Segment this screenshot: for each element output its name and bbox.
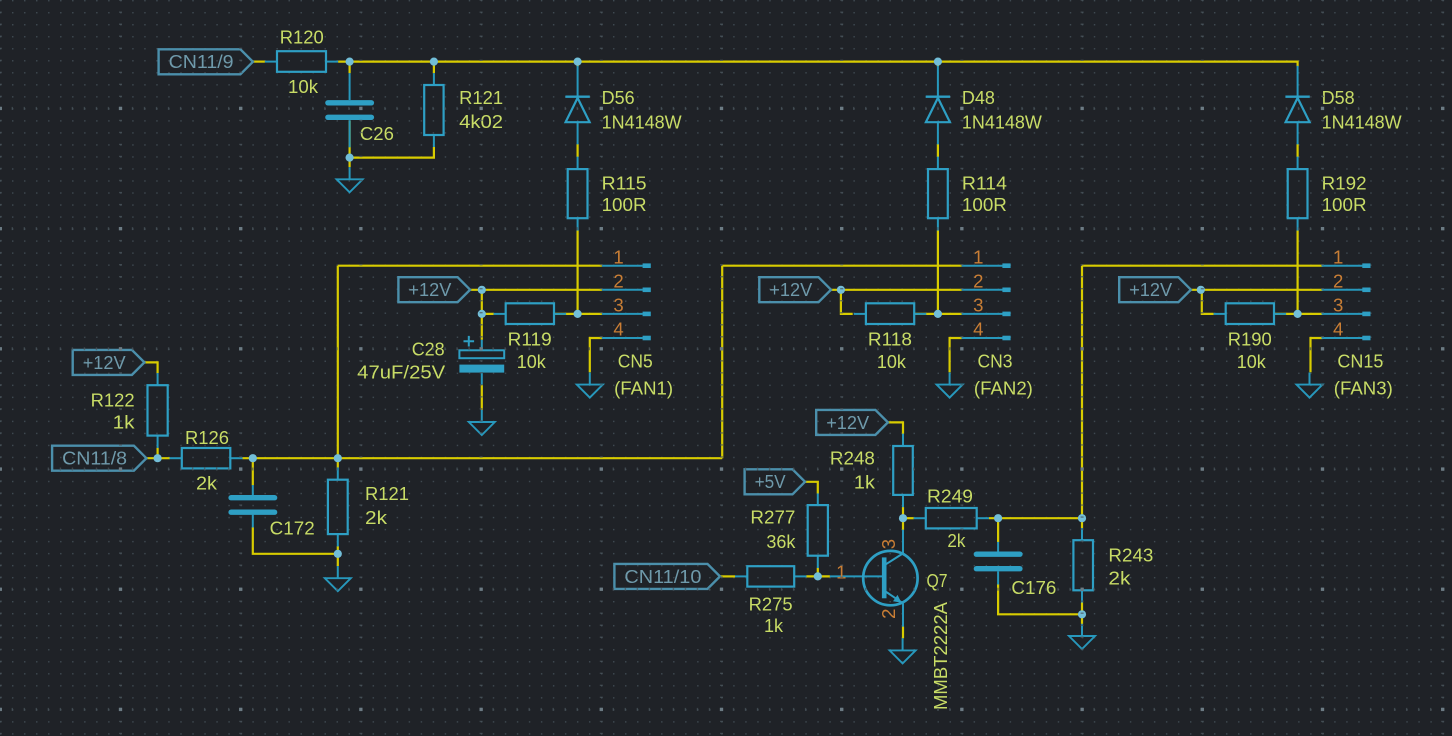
svg-text:D58: D58 [1322,87,1355,108]
svg-text:C26: C26 [360,123,394,144]
svg-text:C172: C172 [270,518,315,539]
svg-text:100R: 100R [602,194,647,215]
svg-text:2: 2 [613,270,623,291]
svg-text:10k: 10k [877,351,907,372]
svg-text:1N4148W: 1N4148W [1322,111,1402,132]
svg-text:2: 2 [973,270,983,291]
svg-text:+12V: +12V [769,279,813,300]
svg-text:2k: 2k [365,507,388,528]
svg-text:1k: 1k [764,615,784,636]
svg-text:Q7: Q7 [927,570,948,591]
svg-text:1: 1 [1333,246,1343,267]
svg-text:10k: 10k [288,76,319,97]
svg-text:4: 4 [613,319,623,340]
svg-text:2k: 2k [1108,567,1131,588]
svg-text:R248: R248 [830,448,875,469]
svg-text:+12V: +12V [83,352,127,373]
svg-text:3: 3 [613,295,623,316]
svg-text:C28: C28 [412,338,445,359]
svg-text:1k: 1k [854,471,876,492]
svg-text:(FAN3): (FAN3) [1334,377,1393,398]
svg-text:D56: D56 [602,87,635,108]
svg-text:R277: R277 [750,507,795,528]
svg-text:CN11/10: CN11/10 [624,566,701,587]
svg-text:R192: R192 [1322,173,1367,194]
svg-text:CN3: CN3 [978,351,1013,372]
svg-text:CN5: CN5 [618,351,653,372]
svg-text:2k: 2k [196,473,218,494]
svg-text:R249: R249 [927,486,973,507]
svg-text:+12V: +12V [408,279,452,300]
svg-text:3: 3 [1333,295,1343,316]
svg-text:R115: R115 [602,173,647,194]
svg-text:47uF/25V: 47uF/25V [357,361,446,382]
svg-text:D48: D48 [962,87,995,108]
svg-text:4k02: 4k02 [459,111,503,132]
svg-text:3: 3 [878,539,899,549]
svg-text:1N4148W: 1N4148W [962,111,1042,132]
svg-text:1k: 1k [113,411,136,432]
svg-text:1: 1 [613,246,623,267]
svg-text:R190: R190 [1228,328,1272,349]
svg-text:R120: R120 [280,26,324,47]
svg-text:1N4148W: 1N4148W [602,111,682,132]
svg-text:R122: R122 [91,390,135,411]
svg-text:R121: R121 [459,87,503,108]
svg-text:+12V: +12V [826,412,870,433]
svg-text:36k: 36k [766,531,796,552]
svg-text:+12V: +12V [1129,279,1173,300]
svg-text:(FAN2): (FAN2) [974,377,1033,398]
svg-text:1: 1 [973,246,983,267]
svg-text:100R: 100R [962,194,1007,215]
svg-text:CN11/9: CN11/9 [169,51,234,72]
svg-text:10k: 10k [517,351,547,372]
svg-text:CN15: CN15 [1337,351,1383,372]
svg-text:C176: C176 [1011,577,1056,598]
svg-text:3: 3 [973,295,983,316]
svg-text:MMBT2222A: MMBT2222A [930,601,951,710]
svg-text:2: 2 [1333,270,1343,291]
svg-text:(FAN1): (FAN1) [614,377,673,398]
svg-text:4: 4 [1333,319,1343,340]
svg-text:R275: R275 [749,593,793,614]
svg-text:R126: R126 [185,427,229,448]
svg-text:100R: 100R [1322,194,1367,215]
svg-text:4: 4 [973,319,983,340]
svg-text:R118: R118 [868,328,912,349]
svg-text:R119: R119 [508,328,552,349]
svg-text:CN11/8: CN11/8 [62,448,127,469]
svg-text:2: 2 [878,609,899,619]
svg-text:R114: R114 [962,173,1007,194]
svg-text:+5V: +5V [755,471,787,492]
svg-text:R121: R121 [365,483,409,504]
svg-text:10k: 10k [1237,351,1267,372]
svg-text:R243: R243 [1108,545,1153,566]
